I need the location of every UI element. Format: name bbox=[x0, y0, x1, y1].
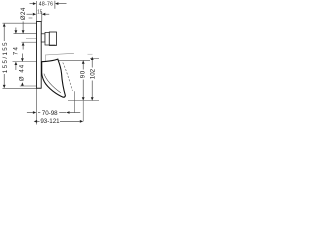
extension line lever top right y60.3 bbox=[58, 59, 90, 61]
dimension 48-76 top bbox=[30, 1, 67, 9]
svg-text:102: 102 bbox=[90, 68, 97, 79]
svg-text:15: 15 bbox=[37, 10, 42, 16]
leader dash near O24 bbox=[29, 17, 33, 19]
raised lever end dashed bbox=[63, 63, 73, 91]
raised lever top edge (thin) bbox=[45, 53, 74, 55]
handle collar bbox=[45, 32, 49, 45]
dimension 102 vertical bbox=[91, 57, 94, 101]
extension line y61.6 lever top left bbox=[13, 61, 37, 63]
dimension Ø44 bbox=[21, 54, 24, 86]
extension line y100.6 bottom right bbox=[68, 100, 99, 102]
svg-text:90: 90 bbox=[80, 70, 87, 78]
svg-text:48-76: 48-76 bbox=[39, 2, 54, 8]
wire wall extension line top bbox=[35, 1, 37, 21]
dimension 93-121 bbox=[34, 120, 83, 123]
dimension 90 vertical bbox=[82, 60, 85, 100]
extension line y34 bbox=[14, 33, 37, 35]
escutcheon plate (side view) bbox=[37, 22, 42, 89]
dimension Ø24 vertical arrows bbox=[22, 22, 25, 50]
extension line right step y58.6 bbox=[90, 58, 99, 60]
svg-text:93-121: 93-121 bbox=[40, 118, 60, 125]
extension line y86.1 bbox=[20, 85, 37, 87]
handle stem bbox=[41, 34, 45, 42]
raised lever left edge connector bbox=[44, 55, 46, 61]
extension line y42.2 bbox=[22, 41, 37, 43]
extension line x74.3 lever knob bbox=[73, 91, 75, 112]
faint line y54.2 right bbox=[88, 53, 93, 55]
handle knob end cap bbox=[49, 32, 56, 45]
svg-text:Ø 44: Ø 44 bbox=[19, 64, 26, 81]
extension line y23.2 top of plate bbox=[3, 22, 37, 24]
knob bottom edge accent bbox=[49, 44, 56, 46]
lever handle outline bbox=[42, 59, 66, 97]
dimension 70-98 bbox=[27, 111, 80, 114]
dimension 74 bbox=[15, 28, 18, 71]
svg-text:74: 74 bbox=[12, 46, 19, 55]
centerline y38.5 bbox=[26, 38, 36, 40]
svg-text:155/155: 155/155 bbox=[2, 41, 9, 73]
wire wall extension line bottom bbox=[35, 88, 37, 124]
extension line y88.3 bottom of plate bbox=[3, 87, 42, 89]
extension line x83.2 lower bbox=[82, 101, 84, 122]
dimension 15 plate thickness bbox=[27, 12, 50, 21]
lever inner highlight line bbox=[44, 74, 61, 93]
dimension 155/155 bbox=[3, 23, 6, 88]
svg-text:Ø24: Ø24 bbox=[20, 7, 27, 20]
svg-text:70-98: 70-98 bbox=[42, 110, 58, 117]
